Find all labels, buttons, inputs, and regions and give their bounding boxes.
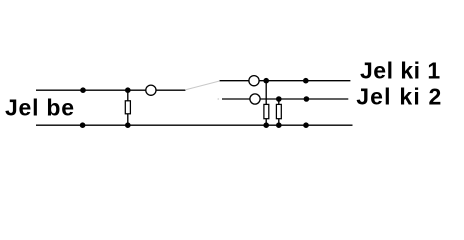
resistor R2 (vertical box) xyxy=(264,104,269,118)
connector circle on output line 2 xyxy=(250,94,260,104)
node: junction dot output line 1 at x=266 xyxy=(263,78,269,84)
wire: output line 2 right of circle xyxy=(260,98,348,100)
node: junction dot bottom of R2 xyxy=(263,122,269,128)
wire: output line 1 right of circle xyxy=(259,80,350,82)
svg-text:Jel be: Jel be xyxy=(5,95,75,121)
resistor R3 (vertical box) xyxy=(276,104,281,118)
wire: top input line after connector circle xyxy=(156,89,185,91)
switch SW1 lever (gray, thrown to upper contact) xyxy=(185,81,220,90)
node: junction dot top input at x=83 xyxy=(80,87,86,93)
wire: vertical branch of resistor R2 xyxy=(265,81,267,126)
connector circle: switch common terminal xyxy=(146,85,156,95)
connector circle on output line 1 xyxy=(249,76,259,86)
wire: output line 1 (Jel ki 1) left of circle xyxy=(220,80,249,82)
node: junction dot output line 2 at x=306 xyxy=(304,96,310,102)
svg-text:Jel ki 1: Jel ki 1 xyxy=(360,58,441,84)
wire: vertical branch of resistor R3 xyxy=(278,99,280,125)
wire: output line 2 (Jel ki 2) left of circle xyxy=(222,98,250,100)
wire: vertical branch of resistor R1 xyxy=(127,90,129,125)
wire: bottom common line xyxy=(36,124,353,126)
wire: top input line xyxy=(36,89,146,91)
switch SW1 lower throw contact mark xyxy=(217,98,219,100)
node: junction dot bottom input at x=83 xyxy=(80,122,86,128)
node: junction dot bottom of R1 xyxy=(125,122,131,128)
resistor R1 (vertical box) xyxy=(125,101,130,114)
svg-text:Jel ki 2: Jel ki 2 xyxy=(356,84,442,110)
node: junction dot bottom line at x=306 xyxy=(303,122,309,128)
node: junction dot output line 2 at x=279 xyxy=(276,96,282,102)
node: junction dot bottom of R3 xyxy=(276,122,282,128)
node: junction dot top of R1 xyxy=(125,87,131,93)
node: junction dot output line 1 at x=306 xyxy=(303,78,309,84)
